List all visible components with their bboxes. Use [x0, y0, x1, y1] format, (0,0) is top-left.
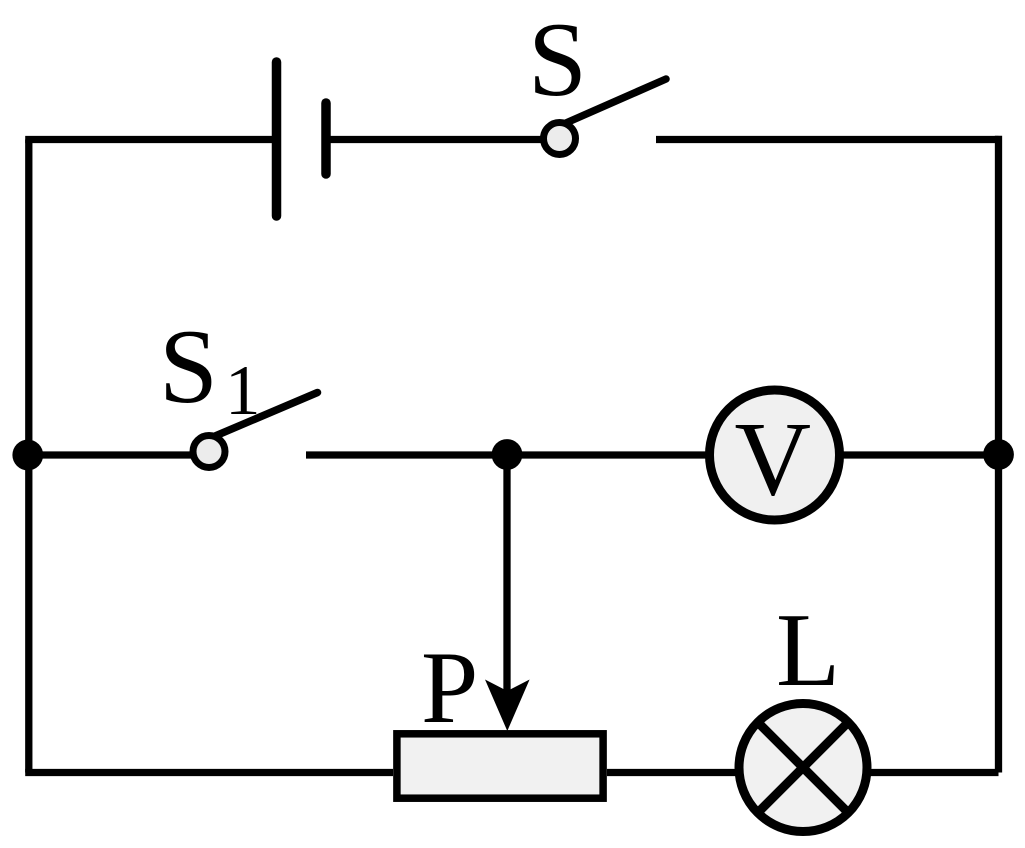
- wire right vertical: [995, 136, 1002, 773]
- svg-text:P: P: [421, 631, 478, 745]
- lamp L cross stroke 2: [758, 722, 849, 813]
- svg-text:V: V: [735, 401, 812, 518]
- switch S pivot circle: [544, 123, 576, 155]
- battery short plate: [321, 103, 331, 174]
- node right junction dot: [983, 439, 1014, 470]
- wire bottom segment right (lamp to corner): [866, 769, 999, 776]
- svg-text:L: L: [776, 591, 840, 708]
- node middle junction dot: [492, 439, 523, 470]
- rheostat P body: [397, 734, 603, 798]
- svg-text:S: S: [159, 308, 218, 425]
- battery long plate: [272, 62, 282, 216]
- wire middle segment 2 (S1 to voltmeter): [306, 451, 710, 458]
- wiper arrow shaft: [503, 455, 510, 694]
- wire middle segment left (dot to switch S1): [29, 451, 191, 458]
- wire bottom segment middle (rheostat to lamp): [607, 769, 740, 776]
- wire top segment left (to battery): [25, 136, 276, 143]
- svg-text:1: 1: [225, 352, 261, 430]
- wiper arrow head: [485, 680, 530, 732]
- switch S lever: [563, 79, 667, 125]
- lamp L cross stroke 1: [758, 722, 849, 813]
- wire left vertical: [25, 140, 32, 773]
- wire bottom segment left: [25, 769, 393, 776]
- wire top segment middle (battery to switch S): [326, 136, 541, 143]
- svg-text:S: S: [528, 1, 587, 118]
- switch S1 pivot circle: [193, 436, 225, 468]
- node left junction dot: [12, 440, 43, 471]
- wire middle segment 3 (voltmeter to right dot): [840, 451, 999, 458]
- switch S1 lever: [214, 393, 318, 437]
- wire top segment right (switch to corner): [656, 136, 999, 143]
- lamp L circle: [739, 704, 867, 832]
- voltmeter U V: [710, 390, 840, 520]
